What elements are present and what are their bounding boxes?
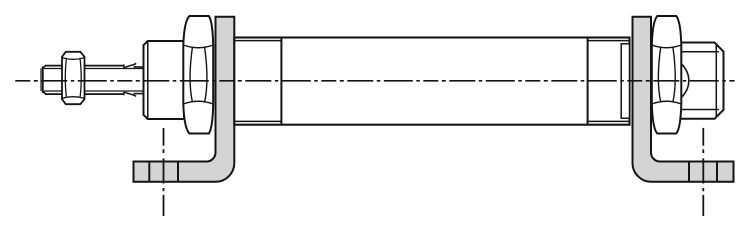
end cap stud dome arc: [681, 63, 689, 97]
end cap chamfer line vertical: [715, 45, 717, 116]
thread runout tick bottom: [123, 92, 125, 95]
clamping hex nut left: [183, 16, 213, 134]
crimp inner line bottom-left: [234, 120, 281, 122]
rod nut chamfer arc left: [65, 59, 66, 96]
rod end face: [42, 67, 44, 94]
rod tip chamfer bottom: [43, 91, 46, 94]
thread runout diagonal top: [124, 63, 136, 67]
piston rod threaded shank: [41, 63, 144, 96]
right foot slot edge left: [688, 162, 690, 182]
rod nut facet line bottom: [62, 97, 85, 99]
front head cap (left): [144, 41, 185, 119]
thread crest bottom runout segment: [134, 93, 144, 95]
end cap chamfer line bottom: [680, 109, 719, 111]
right bearing ring: [621, 44, 629, 118]
rear end cap (right): [678, 43, 724, 119]
right mounting bracket (L-shaped foot): [633, 17, 734, 182]
thread runout diagonal bottom: [124, 92, 136, 96]
cylinder tube outer profile: [234, 38, 629, 125]
rod hex nut: [62, 52, 85, 104]
right foot hole centerline: [702, 128, 704, 216]
left foot slot edge right: [177, 162, 179, 182]
left nut facet line top: [183, 45, 213, 48]
left nut chamfer arc left: [190, 47, 192, 103]
tube crimp line left: [280, 37, 282, 124]
thread root bottom: [44, 90, 144, 92]
thread crest bottom: [45, 93, 124, 95]
main axis centerline: [15, 80, 734, 82]
end cap chamfer line top: [680, 51, 719, 53]
thread runout tick top: [123, 64, 125, 67]
left nut facet line bottom: [183, 101, 213, 104]
right foot slot edge right: [716, 162, 718, 182]
thread crest top: [45, 65, 124, 67]
right nut facet line top: [652, 45, 682, 48]
thread root top: [44, 68, 144, 70]
tube crimp line right: [587, 37, 589, 124]
left mounting bracket (L-shaped foot): [134, 17, 235, 182]
left foot slot edge left: [148, 162, 150, 182]
right nut facet line bottom: [652, 101, 682, 104]
rod nut facet line top: [62, 58, 85, 60]
right nut chamfer arc left: [658, 47, 660, 103]
left foot hole centerline: [163, 128, 165, 216]
rod nut chamfer arc right: [80, 59, 81, 96]
left nut chamfer arc right: [205, 47, 207, 103]
crimp inner line bottom-right: [588, 120, 630, 122]
right nut chamfer arc right: [673, 47, 675, 103]
head cap chamfer line: [147, 41, 149, 119]
thread crest top runout segment: [134, 66, 144, 68]
crimp inner line top-right: [588, 40, 630, 42]
rod tip chamfer top: [43, 66, 46, 69]
clamping hex nut right: [652, 16, 682, 134]
crimp inner line top-left: [234, 40, 281, 42]
rod end face inner line: [40, 68, 42, 91]
